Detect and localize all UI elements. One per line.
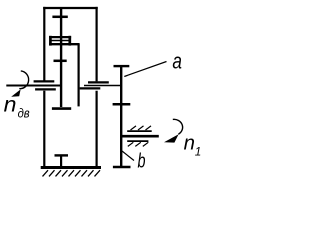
output bearing upper line bbox=[127, 130, 152, 132]
shaft III (vertical, outside housing) bbox=[120, 66, 122, 167]
right wall bearing upper bar bbox=[88, 81, 109, 83]
svg-text:дв: дв bbox=[18, 106, 30, 121]
shaft I (vertical input gear shaft) bbox=[60, 8, 62, 107]
svg-text:a: a bbox=[172, 50, 182, 75]
input rotation arrowhead bbox=[11, 89, 20, 96]
shaft II (vertical, from block elbow) bbox=[77, 44, 79, 106]
input rotation arrow arc bbox=[19, 71, 28, 89]
housing top edge bbox=[43, 7, 97, 9]
svg-text:1: 1 bbox=[195, 145, 202, 158]
shaft I end bar (step bearing) bbox=[52, 107, 71, 110]
shaft I upper crossbar (top bearing) bbox=[52, 16, 67, 19]
output shaft n1 (horizontal) bbox=[121, 135, 159, 138]
output bearing upper hatch bbox=[131, 126, 152, 130]
leader line to label b bbox=[122, 151, 134, 161]
left wall bearing lower bar bbox=[35, 88, 56, 90]
left wall bearing upper bar bbox=[34, 80, 55, 82]
svg-text:n: n bbox=[4, 93, 17, 117]
svg-text:b: b bbox=[138, 149, 146, 172]
shaft III bottom bar bbox=[113, 166, 131, 169]
shaft I lower crossbar (bearing) bbox=[54, 60, 67, 63]
leader line to label a bbox=[124, 62, 166, 77]
housing right wall lower bbox=[95, 91, 97, 168]
output bearing lower hatch bbox=[128, 142, 149, 146]
striped block: middle stripe bbox=[50, 40, 69, 42]
right wall bearing lower bar bbox=[80, 87, 101, 89]
n1 rotation arrowhead bbox=[164, 134, 179, 142]
housing right wall upper bbox=[95, 7, 97, 82]
housing left wall upper bbox=[43, 7, 45, 81]
striped block: bottom stripe + elbow to shaft II bbox=[49, 43, 80, 45]
ground hatching under base bbox=[43, 170, 101, 176]
striped block: right end bar bbox=[68, 36, 71, 46]
svg-text:n: n bbox=[184, 133, 195, 155]
shaft III middle crossbar bbox=[113, 103, 131, 106]
output bearing lower line bbox=[127, 140, 148, 142]
striped block: top stripe bbox=[49, 36, 71, 38]
intermediate horizontal shaft to shaft III bbox=[84, 85, 121, 87]
shaft I bottom support bar bbox=[55, 154, 69, 156]
housing base line bbox=[41, 166, 101, 169]
shaft III top bar bbox=[114, 65, 130, 67]
shaft I bottom support stem bbox=[60, 155, 62, 167]
housing left wall lower bbox=[43, 91, 45, 168]
striped block on shaft I: left end bar bbox=[49, 36, 52, 46]
input shaft n_dv (horizontal) bbox=[6, 85, 61, 87]
n1 rotation arrow arc bbox=[173, 119, 183, 134]
